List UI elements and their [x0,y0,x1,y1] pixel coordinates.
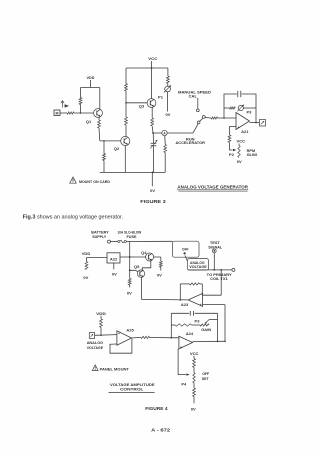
svg-text:0V: 0V [157,272,162,277]
svg-text:VDD: VDD [87,75,95,80]
svg-text:CAL: CAL [189,93,198,98]
svg-text:+: + [180,346,182,350]
svg-text:0V: 0V [191,406,196,411]
svg-text:VDD: VDD [96,311,106,316]
svg-text:ANALOG: ANALOG [190,261,205,265]
svg-text:VDD: VDD [82,251,91,256]
svg-text:ACCELERATOR: ACCELERATOR [175,140,205,145]
svg-text:A24: A24 [186,331,194,336]
svg-text:0V: 0V [112,271,117,276]
svg-text:SIGNAL: SIGNAL [208,244,223,249]
svg-text:MOUNT ON CARD: MOUNT ON CARD [79,179,110,184]
svg-text:FIGURE 4: FIGURE 4 [145,406,168,412]
svg-text:A22: A22 [110,256,118,261]
svg-text:0V: 0V [127,290,132,295]
svg-text:SET: SET [202,376,209,381]
svg-text:Q1: Q1 [86,119,92,124]
svg-text:A - 672: A - 672 [151,427,171,432]
svg-text:P2: P2 [229,152,235,157]
svg-text:P1: P1 [158,95,164,100]
svg-text:VCC: VCC [148,56,157,61]
svg-text:A23: A23 [181,302,189,307]
svg-text:FUSE: FUSE [127,234,137,239]
svg-text:A21: A21 [241,129,249,134]
svg-text:P4: P4 [181,381,187,386]
svg-text:Q2: Q2 [114,146,120,151]
svg-text:Q3: Q3 [139,104,145,109]
svg-text:0V: 0V [150,188,155,193]
svg-text:P3: P3 [195,319,201,324]
svg-text:P3: P3 [246,109,252,114]
svg-text:IDLING: IDLING [247,153,258,157]
svg-text:CONTROL: CONTROL [120,387,144,392]
svg-text:ANALOG VOLTAGE GENERATOR: ANALOG VOLTAGE GENERATOR [177,184,248,189]
svg-text:M: M [56,112,59,116]
svg-text:PANEL MOUNT: PANEL MOUNT [100,366,130,371]
svg-text:+: + [118,332,120,336]
svg-text:SUPPLY: SUPPLY [92,234,106,239]
svg-text:COIL TX1: COIL TX1 [210,276,228,281]
svg-text:Q5: Q5 [134,264,140,269]
svg-text:0V: 0V [83,275,88,280]
svg-text:Q4: Q4 [141,250,147,255]
svg-text:+: + [238,126,240,130]
svg-text:VOLTAGE: VOLTAGE [189,265,207,269]
svg-text:GAIN: GAIN [201,327,211,332]
svg-text:A25: A25 [126,327,134,332]
svg-text:OFF: OFF [182,247,189,252]
svg-text:+: + [200,303,202,307]
svg-text:FIGURE 3: FIGURE 3 [140,199,166,205]
svg-text:VCC: VCC [237,139,246,144]
svg-text:VOLTAGE: VOLTAGE [87,345,104,350]
svg-text:VCC: VCC [190,351,199,356]
svg-text:0V: 0V [237,159,242,164]
svg-text:Fig.3 shows an analog voltage: Fig.3 shows an analog voltage generator. [23,215,123,221]
svg-text:0V: 0V [166,112,171,117]
